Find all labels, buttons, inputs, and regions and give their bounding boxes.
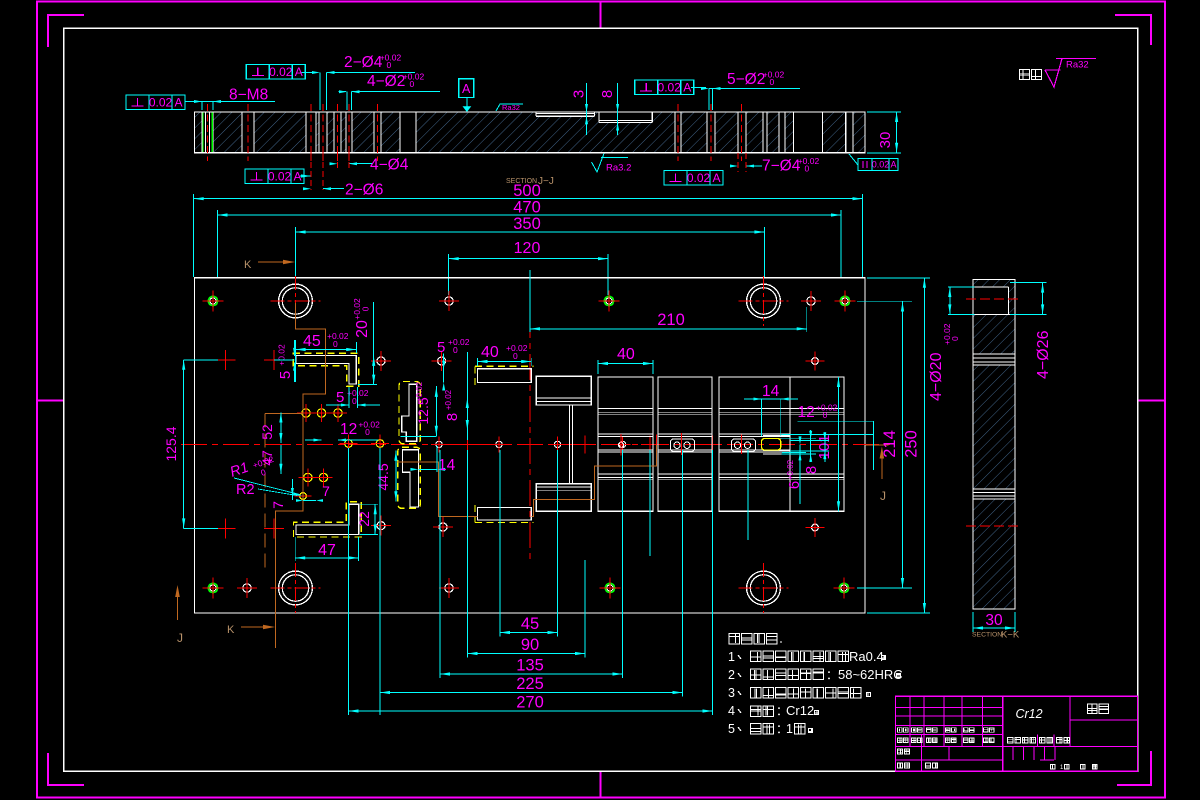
cross hole mid-left r2b (264, 350, 284, 370)
die opening C white (402, 384, 417, 441)
die opening C yellow dashed (399, 382, 420, 444)
dim 40 (block G) (598, 346, 653, 374)
corner trim mark top-right (1115, 15, 1151, 45)
M8 hole top row 3 (834, 290, 855, 311)
svg-text:Ra32: Ra32 (502, 103, 520, 112)
centerline cross e4 (704, 435, 722, 453)
section arrow K top (244, 259, 295, 271)
side section hatched body (973, 280, 1015, 610)
die bar E yellow dashed (475, 366, 534, 385)
centering tick left (37, 400, 64, 402)
svg-text:0: 0 (453, 345, 458, 355)
svg-text:7−Ø4: 7−Ø4 (762, 158, 801, 175)
svg-text:0: 0 (333, 339, 338, 349)
dim 14 (shape D) (410, 446, 455, 474)
centerline cross e1 (459, 435, 477, 453)
centerline pin d4 (615, 436, 631, 452)
dim 120 (449, 240, 608, 295)
svg-text:J: J (177, 631, 183, 645)
centerline pin d1 (431, 436, 447, 452)
pilot hole mid right r2e (806, 352, 825, 371)
corner trim mark bottom-left (48, 753, 84, 785)
svg-text:Ra3.2: Ra3.2 (606, 163, 631, 174)
dim 12 (wire holes) (305, 419, 380, 441)
dowel hole top row (439, 291, 459, 311)
svg-text:2: 2 (728, 668, 735, 682)
die block G outline (536, 376, 591, 511)
label 8 (recess depth) (599, 90, 616, 98)
svg-text:14: 14 (438, 457, 456, 474)
svg-text:A: A (890, 159, 896, 169)
svg-text:4: 4 (728, 704, 735, 718)
svg-text:8: 8 (803, 466, 820, 474)
svg-text:500: 500 (513, 182, 541, 200)
dim 470 (218, 199, 842, 278)
corner trim mark top-left (48, 15, 84, 47)
hatch pattern definition (0, 0, 1, 1)
side section slot 1 (973, 354, 1015, 365)
side section counterbore void (973, 287, 1015, 314)
label 4-o2+0.02 (367, 71, 425, 90)
svg-text:2−Ø6: 2−Ø6 (345, 182, 383, 199)
svg-text:3: 3 (571, 90, 588, 98)
svg-text:52: 52 (259, 424, 275, 440)
title part name Cr12 (1015, 707, 1042, 721)
svg-text:0: 0 (410, 79, 415, 89)
M8 hole bottom row 3 (833, 577, 854, 598)
centerline pin d2 (491, 436, 507, 452)
die bar F lower white (478, 508, 532, 521)
title block cell labels (898, 728, 1098, 771)
svg-text:30: 30 (877, 132, 894, 149)
bottom dim extension lines (349, 448, 749, 715)
dim 350 (296, 215, 765, 277)
svg-text:210: 210 (657, 311, 685, 329)
svg-text:1: 1 (786, 722, 793, 736)
svg-text:7: 7 (270, 501, 286, 509)
svg-text:A: A (295, 65, 303, 79)
dim 52 (259, 413, 283, 444)
svg-text:22: 22 (356, 511, 372, 527)
leader R1/R2 (234, 478, 302, 496)
svg-text:0.02: 0.02 (872, 159, 890, 169)
svg-text:44.5: 44.5 (375, 463, 391, 490)
dowel hole top row 2 (801, 291, 821, 311)
die plate outline (195, 278, 866, 613)
svg-text:0.02: 0.02 (658, 80, 682, 94)
main vertical centerline (red) (529, 270, 531, 560)
dim 45 (top, shape A) (296, 331, 357, 353)
gdt leader (2-o6) (300, 174, 311, 177)
svg-text:58~62HRC: 58~62HRC (838, 667, 903, 682)
svg-text:K: K (227, 624, 235, 636)
section recess deep (8) (599, 112, 652, 123)
svg-text:0: 0 (805, 164, 810, 174)
svg-text:5: 5 (336, 389, 344, 406)
dim 90 (468, 636, 586, 655)
section hole centerlines (red) (208, 104, 742, 161)
svg-text:0: 0 (387, 60, 392, 70)
svg-text:J: J (880, 489, 886, 503)
svg-text:0.02: 0.02 (149, 95, 173, 109)
centerline pin d3 (550, 436, 566, 452)
section path J exit (880, 447, 886, 504)
svg-text:47: 47 (318, 542, 336, 559)
dim 2-o6 line (303, 153, 344, 190)
svg-text:+0.02: +0.02 (444, 389, 453, 410)
svg-text:350: 350 (513, 215, 541, 233)
wire hole b2 (314, 468, 332, 486)
M8 hole top row 1 (202, 290, 223, 311)
svg-text:8: 8 (444, 413, 461, 421)
die block slot marks (671, 435, 791, 454)
label 2-o4+0.02 (344, 52, 402, 71)
datum A symbol (459, 79, 474, 112)
svg-text:5: 5 (277, 371, 294, 379)
dim 7v (270, 479, 294, 509)
dim 8 (right) (790, 432, 829, 474)
corner counterbore hole bottom-right (739, 563, 789, 613)
svg-text:0.02: 0.02 (687, 171, 711, 185)
svg-text:0: 0 (770, 77, 775, 87)
dim 8 vertical (mid) (444, 352, 469, 440)
centering tick top (600, 2, 602, 29)
yellow slot near 14 dim (762, 439, 781, 451)
svg-text:A: A (712, 171, 720, 185)
svg-text:Ra32: Ra32 (1066, 60, 1089, 71)
dim 20 vertical (352, 298, 377, 385)
svg-text:0.02: 0.02 (268, 169, 292, 183)
svg-text:7: 7 (322, 483, 330, 499)
side section centerline 1 (red) (966, 298, 1022, 300)
side section centerline 2 (red) (966, 525, 1022, 527)
svg-text:45: 45 (521, 615, 539, 633)
dim 2-o4 line (301, 71, 415, 110)
svg-text:4−Ø2: 4−Ø2 (367, 73, 405, 90)
svg-text:470: 470 (513, 199, 541, 217)
centerline hole c2 (371, 435, 389, 453)
svg-text:5−Ø2: 5−Ø2 (727, 71, 765, 88)
GD&T frame perp 0.02 A (7-o4) (664, 171, 723, 186)
wire hole R-target (295, 488, 312, 505)
label R2 (236, 482, 255, 498)
dim 45 (bottom) (500, 615, 558, 634)
svg-text:20: 20 (354, 320, 371, 338)
dim 7-o4 line (730, 153, 762, 172)
dim 6 (right) (782, 436, 806, 504)
svg-text:0: 0 (361, 306, 371, 311)
corner counterbore hole top-right (739, 276, 789, 326)
centerline cross e3 (641, 435, 659, 453)
dim 250 (867, 278, 930, 613)
corner counterbore hole top-left (271, 276, 321, 326)
die bar F yellow dashed (475, 505, 534, 523)
wire hole a3 (329, 404, 347, 422)
dowel hole bottom row 2 (439, 578, 459, 598)
section arrow K bottom (227, 624, 275, 636)
die opening B yellow dashed (294, 502, 362, 537)
pilot hole low right r3e (806, 518, 825, 537)
surface symbol Ra32 top-left of recess (496, 103, 523, 112)
svg-text:A: A (462, 82, 471, 96)
wire hole a1 (297, 404, 315, 422)
svg-text:135: 135 (516, 657, 544, 675)
svg-text:0: 0 (513, 351, 518, 361)
svg-text:225: 225 (516, 675, 544, 693)
section M8 thread lines (green) (203, 112, 212, 153)
wire hole a2 (312, 404, 330, 422)
svg-text:K−K: K−K (1001, 630, 1020, 641)
svg-text:45: 45 (303, 333, 321, 350)
section J-J holes (202, 112, 853, 153)
section path J branch (265, 413, 303, 570)
corner trim mark bottom-right (1117, 751, 1151, 785)
svg-text:A: A (683, 80, 691, 94)
centerline hole c1 (340, 435, 358, 453)
dim 210 (530, 270, 807, 332)
dim 225 (380, 675, 683, 694)
svg-text:0: 0 (950, 336, 960, 341)
svg-text:Cr12: Cr12 (786, 703, 814, 718)
svg-text:12: 12 (798, 404, 815, 421)
GD&T frame perp 0.02 A (2-o4) (246, 65, 305, 80)
svg-text:250: 250 (903, 430, 921, 458)
svg-text:40: 40 (481, 344, 499, 361)
section J-J outline (195, 112, 866, 153)
svg-text:K: K (244, 259, 252, 271)
die opening D yellow dashed (398, 447, 421, 508)
svg-text:+0.02: +0.02 (786, 459, 795, 480)
5-o2 leader (691, 87, 800, 110)
section arrow J bottom-left (175, 585, 183, 645)
GD&T frame perp 0.02 A (below left) (245, 169, 304, 184)
label SECTION J-J (506, 176, 554, 187)
svg-text:214: 214 (881, 430, 899, 458)
svg-text:2−Ø4: 2−Ø4 (344, 54, 383, 71)
corner counterbore hole bottom-left (271, 563, 321, 613)
red ticks on die blocks (621, 433, 742, 455)
svg-text:4−Ø26: 4−Ø26 (1035, 330, 1052, 379)
pilot hole low r3d (433, 517, 453, 537)
dim 270 (349, 694, 713, 713)
title block grid (896, 696, 1138, 771)
dim 4-o2 line (339, 90, 440, 110)
surface symbol Ra32 below section (592, 154, 632, 174)
svg-text:8−M8: 8−M8 (229, 87, 268, 104)
dim 214 (857, 301, 912, 588)
GD&T frame par 0.02 A (849, 154, 898, 171)
dim 4-o26 (1010, 283, 1052, 379)
svg-text:5: 5 (728, 722, 735, 736)
svg-text:+0.02: +0.02 (277, 344, 287, 366)
die opening B (bottom L) white (296, 504, 359, 534)
svg-text:0: 0 (365, 427, 370, 437)
svg-text:30: 30 (985, 612, 1003, 629)
svg-text:：: ： (826, 668, 838, 682)
centering tick bottom (600, 771, 602, 798)
dim 30 (section thickness) (867, 112, 901, 153)
cross hole low-left r3b (264, 518, 284, 538)
svg-text:Cr12: Cr12 (1015, 707, 1042, 721)
svg-text:+0.02: +0.02 (415, 381, 424, 402)
label R1 (228, 454, 275, 481)
die block G inner lines (536, 398, 591, 491)
extension line at 295.6 through shape A (295, 340, 297, 382)
dim 125.4 (163, 360, 218, 529)
svg-text:4−Ø20: 4−Ø20 (928, 352, 945, 401)
dim 47v (259, 445, 283, 474)
svg-text:40: 40 (617, 346, 635, 363)
wire hole b1 (299, 468, 317, 486)
label SECTION K-K (972, 630, 1020, 641)
section recess shallow (3) (536, 112, 595, 116)
dim 8 line (616, 83, 619, 135)
svg-text:0: 0 (352, 396, 357, 406)
dowel hole bottom row 1 (237, 578, 257, 598)
dim 101 (816, 377, 840, 511)
die bar E upper white (478, 369, 532, 383)
svg-text:Ra0.4: Ra0.4 (849, 649, 884, 664)
label 4-o4 (370, 157, 409, 174)
svg-text:270: 270 (516, 694, 544, 712)
cross hole mid-left r2a (216, 350, 236, 370)
section J-J hatched body (195, 112, 866, 153)
dim 3 line (585, 83, 588, 135)
GD&T frame perp 0.02 A (5-o2) (635, 80, 694, 95)
die opening A (top L) white (296, 356, 357, 384)
svg-text:5: 5 (437, 339, 445, 356)
svg-text:SECTION: SECTION (972, 632, 1002, 639)
svg-text:12: 12 (340, 421, 357, 438)
main horizontal centerline (red) (181, 443, 892, 445)
svg-text:R2: R2 (236, 482, 255, 498)
die opening D white (403, 450, 419, 507)
svg-text:90: 90 (521, 636, 539, 654)
svg-text:125.4: 125.4 (163, 426, 179, 461)
GD&T frame perp 0.02 A (8-M8) (126, 95, 185, 110)
dim 5b (326, 387, 380, 408)
dim 4-o4 line (330, 153, 373, 170)
label 8-M8 (229, 87, 268, 104)
side section slot 2 (973, 489, 1015, 499)
dim 44.5 (375, 451, 398, 502)
dim 5c (top of bar E) (437, 337, 470, 391)
dim 14 (yellow slot) (744, 383, 798, 436)
svg-text:+0.02: +0.02 (448, 337, 470, 347)
svg-text:0: 0 (823, 410, 828, 420)
svg-text:14: 14 (762, 383, 780, 400)
note unmarked roughness (1020, 59, 1097, 88)
label 5-o2+0.02 (727, 69, 785, 88)
dim 30 (side width) (973, 612, 1015, 632)
M8 hole bottom row 2 (599, 577, 620, 598)
label 3 (recess depth) (571, 90, 588, 98)
pilot hole mid r2c (371, 351, 391, 371)
die opening A yellow dashed (293, 353, 358, 386)
label 7-o4+0.02 (762, 156, 820, 175)
svg-text:4−Ø4: 4−Ø4 (370, 157, 409, 174)
dim 500 (194, 182, 863, 277)
side section outline (973, 280, 1015, 610)
svg-text:1: 1 (728, 650, 735, 664)
svg-text:3: 3 (728, 686, 735, 700)
dim 5a vertical (274, 340, 296, 382)
M8 hole bottom row 1 (202, 577, 223, 598)
dim 47 (bottom shape B) (295, 537, 358, 561)
centerline cross e2 (576, 435, 594, 453)
dim 22 (356, 504, 378, 534)
technical requirements text (728, 633, 903, 736)
8-M8 leader line (185, 100, 275, 110)
title drawing name (1088, 704, 1109, 714)
svg-text:A: A (174, 95, 182, 109)
dim 135 (440, 657, 623, 676)
M8 hole top row 2 (598, 290, 619, 311)
dim 4-o20 (928, 287, 975, 401)
dim 12.5 vertical (401, 381, 438, 436)
svg-text:120: 120 (514, 240, 541, 257)
dim 12 (right) (781, 402, 873, 470)
svg-text:0.02: 0.02 (269, 65, 293, 79)
section path J right (397, 445, 889, 517)
die blocks H (right row) (598, 377, 844, 511)
dim 7h (296, 483, 330, 502)
section path K through plan (275, 303, 325, 648)
svg-text:+0.02: +0.02 (327, 331, 349, 341)
centering tick right (1138, 400, 1166, 402)
label 2-o6 (345, 182, 383, 199)
pilot hole low r3c (371, 516, 391, 536)
svg-text:8: 8 (599, 90, 616, 98)
cross hole low-left r3a (216, 518, 236, 538)
dim 40 (bar E) (478, 343, 532, 366)
pilot hole mid r2d (432, 351, 452, 371)
